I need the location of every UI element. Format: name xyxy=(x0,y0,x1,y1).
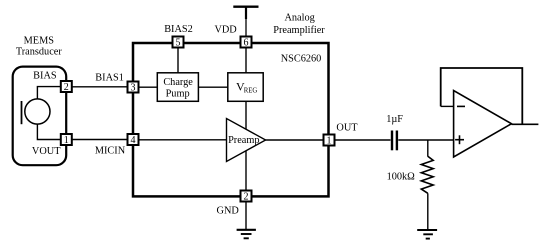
voltage regulator VREG block xyxy=(228,73,263,102)
wire resistor to ground xyxy=(427,193,429,229)
svg-text:1µF: 1µF xyxy=(386,114,403,125)
wire power to pin 6 xyxy=(245,19,247,36)
minus sign xyxy=(457,105,465,107)
wire BIAS1: pin2 to pin3 xyxy=(66,86,133,88)
svg-text:BIAS2: BIAS2 xyxy=(164,24,193,35)
svg-text:BIAS: BIAS xyxy=(33,71,57,82)
svg-text:2: 2 xyxy=(64,82,69,93)
svg-text:NSC6260: NSC6260 xyxy=(281,54,322,65)
wire pin6 to VREG xyxy=(245,48,247,73)
microphone element (circle) xyxy=(25,99,50,124)
svg-text:MEMS: MEMS xyxy=(24,36,55,47)
ground symbol (resistor) xyxy=(417,230,437,239)
op-amp output wire xyxy=(512,123,539,125)
wire GND pin to ground xyxy=(245,202,247,229)
pin 4 (MICIN) xyxy=(128,134,139,146)
resistor R1 100k xyxy=(421,156,433,193)
pin 6 (VDD) xyxy=(241,37,252,49)
MEMS Transducer label xyxy=(16,36,63,58)
plus sign xyxy=(455,135,464,144)
pin 2 (MEMS BIAS) xyxy=(61,81,72,93)
pin 1 (OUT) xyxy=(324,135,335,147)
wire capacitor to op-amp + xyxy=(398,139,453,141)
svg-text:6: 6 xyxy=(244,38,249,49)
svg-text:VOUT: VOUT xyxy=(32,146,61,157)
pin 2 (GND) xyxy=(241,191,252,203)
wire VOUT to MICIN: pin1 to pin4 xyxy=(66,139,133,141)
pin 1 (MEMS VOUT) xyxy=(61,134,72,146)
node junction to resistor xyxy=(427,140,429,157)
charge pump U-block xyxy=(157,73,198,102)
svg-text:1: 1 xyxy=(64,135,69,146)
svg-text:OUT: OUT xyxy=(336,123,358,134)
pin 5 (BIAS2) xyxy=(173,37,184,49)
wire preamp output to pin1 xyxy=(266,139,323,141)
svg-text:Preamp: Preamp xyxy=(228,135,259,146)
wire to inverting input xyxy=(441,105,454,107)
wire pin4 to preamp xyxy=(139,139,226,141)
feedback loop wire (op-amp output to inverting input) xyxy=(441,68,523,124)
wire mic top to pin 2 xyxy=(37,87,60,99)
MEMS transducer body (rounded rect) xyxy=(13,67,66,166)
svg-text:Preamplifier: Preamplifier xyxy=(273,25,325,36)
preamp triangle xyxy=(227,119,266,162)
svg-text:BIAS1: BIAS1 xyxy=(95,72,124,83)
capacitor C1 1uF xyxy=(392,131,397,151)
svg-text:Pump: Pump xyxy=(166,89,190,100)
svg-text:100kΩ: 100kΩ xyxy=(387,172,416,183)
svg-text:REG: REG xyxy=(244,88,258,95)
svg-text:4: 4 xyxy=(131,135,136,146)
wire preamp bottom to GND pin xyxy=(245,151,247,190)
wire OUT pin to capacitor xyxy=(335,139,390,141)
wire mic bottom to pin 1 xyxy=(37,124,60,139)
microphone backplate bar xyxy=(21,101,23,124)
svg-text:5: 5 xyxy=(176,38,181,49)
op-amp U2 triangle xyxy=(454,91,512,158)
wire pin5 to Charge Pump xyxy=(177,48,179,73)
svg-text:Transducer: Transducer xyxy=(16,47,63,58)
svg-text:VDD: VDD xyxy=(214,25,237,36)
svg-text:Charge: Charge xyxy=(163,77,193,88)
wire VREG to preamp top xyxy=(245,101,247,129)
svg-text:GND: GND xyxy=(217,206,240,217)
ground symbol (GND pin) xyxy=(237,230,256,239)
pin 3 (BIAS1) xyxy=(128,82,139,94)
svg-text:3: 3 xyxy=(131,83,136,94)
svg-text:1: 1 xyxy=(327,136,332,147)
svg-text:2: 2 xyxy=(244,192,249,203)
IC NSC6260 outline xyxy=(133,43,329,196)
wire Charge Pump to VREG xyxy=(198,86,227,88)
wire pin3 to Charge Pump xyxy=(133,86,157,88)
svg-text:MICIN: MICIN xyxy=(95,145,126,156)
Analog Preamplifier label xyxy=(273,13,325,37)
VDD power symbol xyxy=(233,7,258,19)
svg-text:Analog: Analog xyxy=(284,13,314,24)
